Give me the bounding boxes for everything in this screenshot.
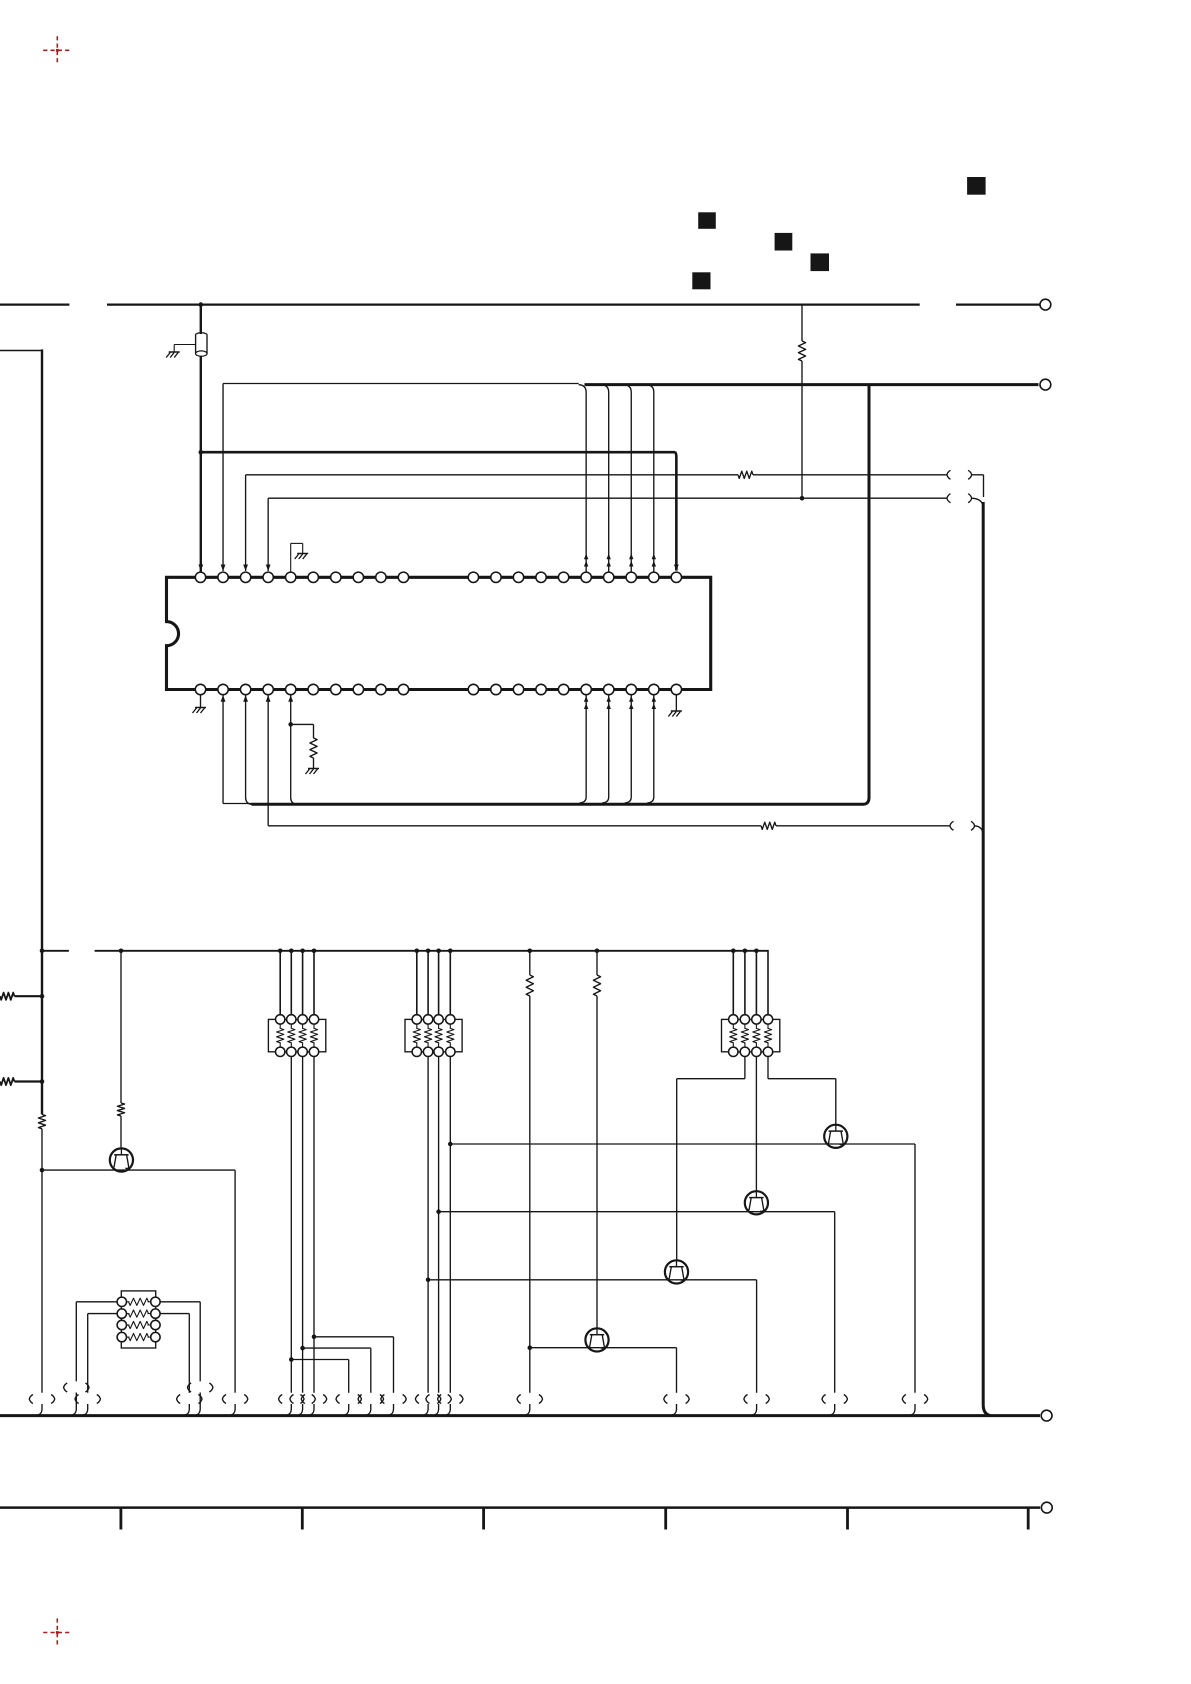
wire Q2 line stub into bottom rail [911, 1404, 915, 1415]
connector pin pair CN-n [177, 1395, 202, 1404]
connector pin pair CN-e (Q1 line) [222, 1395, 247, 1404]
wire RN4 row1 left stub [72, 1393, 76, 1415]
wire RN4 row2 right stub [185, 1404, 189, 1415]
wire bus drop to IC pin17-top [601, 385, 609, 572]
wire Q5 base feed upper [596, 951, 598, 975]
connector pin pair CN (x=438.6) [426, 1395, 451, 1404]
wire IC pin17-bottom vertical [602, 695, 609, 803]
wire RN2 pin4 feed [449, 951, 451, 1015]
resistor R1 (inline on left bus) [38, 1114, 45, 1128]
wire RN1 pin2 tap [291, 1360, 348, 1393]
arrow into IC pin 16 (bottom, double chevron) [584, 696, 588, 709]
junction node (RN1 pin4 / tap) [312, 1335, 317, 1340]
wire RN1 pin3 tap [303, 1348, 371, 1393]
resistor R9 (Q5 base) [593, 975, 600, 996]
arrow into IC pin 19 (bottom, double chevron) [652, 696, 656, 709]
ground (IC pin1-bottom) [193, 695, 207, 713]
wire RN2 pin1 feed [416, 951, 418, 1015]
wire Q1 emitter line [42, 1170, 235, 1393]
IC U1 bottom pin circles [195, 684, 681, 694]
arrow into IC pin 17 (bottom, double chevron) [607, 696, 611, 709]
resistor R7 (left edge lower) [0, 1078, 14, 1085]
arrow (pin18-top, double chevron) [629, 554, 633, 567]
wire IC pin3-top run (right part) [753, 474, 947, 476]
registration mark (bottom-left) [43, 1618, 71, 1646]
transistor Q1 [110, 1148, 133, 1171]
wire top supply rail segment B [107, 304, 920, 306]
bus lower data (thick, y=804.3) [252, 803, 865, 806]
arrow (pin16-top, double chevron) [584, 554, 588, 567]
wire R4 branch [291, 724, 314, 738]
wire RN2 pin2 feed [427, 951, 429, 1015]
wire RN1 pin1 feed [279, 951, 281, 1015]
wire Q1 line stub into bottom rail [231, 1404, 235, 1415]
wire stub into bottom rail (x=314.0) [310, 1404, 314, 1415]
arrow into IC pin 3 (bottom) [243, 695, 248, 702]
wire capacitor ground stub [174, 345, 195, 353]
resistor R4 (pin5 pulldown) [310, 738, 317, 758]
wire IC pin2-top vertical [222, 384, 224, 572]
black index square 5 [967, 177, 986, 195]
wire IC pin4-top run [268, 497, 946, 499]
wire Q2 emitter line [450, 1144, 915, 1393]
connector pin pair CN (x=348.7) [336, 1395, 361, 1404]
wire RN4 row1 right [160, 1302, 200, 1382]
IC U1 top pin circles (pins 1-20) [195, 572, 681, 582]
wire stub into bottom rail (x=302.6) [298, 1404, 302, 1415]
ground (IC pin5-top) [291, 543, 309, 572]
tick mark (x=120.9) [120, 1508, 123, 1530]
wire mid supply rail segment A [42, 950, 69, 952]
junction node (left bus / mid rail) [40, 949, 45, 954]
resistor R2 (inline, pin3 line) [738, 471, 753, 478]
wire left bus lower section [41, 1129, 43, 1393]
wire T1 base feed lower [120, 1116, 122, 1148]
arrow into IC pin 4 (top) [266, 565, 271, 572]
registration mark (top-left) [43, 36, 71, 64]
wire R6 to left bus (thick) [14, 995, 42, 997]
wire RN1 pin4 feed [313, 951, 315, 1015]
wire R7 to left bus (thick) [14, 1080, 42, 1082]
connector pin pair CN-m [188, 1383, 213, 1392]
connector pin pair CN-f (Q2 line) [902, 1395, 927, 1404]
resistor network RN1 [268, 1015, 325, 1057]
resistor network RN3 [722, 1015, 780, 1057]
tick mark (x=1028.2) [1027, 1508, 1030, 1530]
arrow (pin17-top, double chevron) [607, 554, 611, 567]
junction node (mid rail / RN3 pin2) [743, 949, 748, 954]
wire R4 to ground [313, 758, 315, 769]
transistor Q2 [824, 1125, 847, 1148]
connector pin pair CN-c (pin4 line) [947, 494, 972, 503]
wire pin3 line after connector [972, 475, 984, 497]
wire RN1 pin3 output [302, 1056, 304, 1392]
wire RN3 pin2 to Q4 base [677, 1056, 745, 1260]
arrow into IC pin 3 (top) [243, 565, 248, 572]
wire pin1 feed lower (thick) [200, 356, 202, 572]
junction node (RN2 pin3 / Q3 emitter line) [436, 1209, 441, 1214]
wire top supply rail segment C [956, 304, 1040, 306]
connector pin pair CN (x=450.3) [438, 1395, 463, 1404]
terminal TP4 (bottom scale line) [1041, 1502, 1052, 1513]
resistor network RN2 [405, 1015, 462, 1057]
wire bus drop to IC pin18-top [624, 385, 632, 572]
wire Q3 emitter line [439, 1212, 835, 1393]
wire RN4 row2 left [88, 1314, 117, 1393]
wire Q4 emitter line [428, 1280, 756, 1393]
wire RN3 pin2 feed [744, 951, 746, 1015]
ground (at capacitor C1) [166, 352, 180, 358]
wire RN4 row2 left stub [84, 1404, 88, 1415]
junction node (pin1 wire / top rail) [199, 302, 204, 307]
wire stub into bottom rail (x=393.5) [389, 1404, 393, 1415]
arrow (pin19-top, double chevron) [652, 554, 656, 567]
wire bus drop to IC pin19-top [646, 385, 654, 572]
resistor R10 [526, 975, 533, 996]
junction node (pin5-bottom / R4 branch) [288, 722, 293, 727]
wire pin4-bottom hook into right bus [975, 826, 984, 834]
junction node (mid rail / Q5 base feed) [595, 949, 600, 954]
black index square 4 [692, 272, 710, 289]
wire IC pin16-bottom vertical [580, 695, 587, 803]
wire left bus stub into bottom rail [38, 1404, 42, 1415]
connector pin pair CN-l [75, 1395, 100, 1404]
resistor R3 (from top rail) [798, 341, 805, 361]
wire Q3 line stub into bottom rail [831, 1404, 835, 1415]
connector pin pair CN (x=428.1) [415, 1395, 440, 1404]
junction node (x529 wire / Q5 emitter line) [528, 1345, 533, 1350]
bus data rail (thick, y=384.6) [585, 383, 1039, 386]
wire IC pin5-bottom vertical [291, 695, 297, 805]
bus horizontal (thick, y=452) [201, 451, 675, 454]
black index square 1 [698, 212, 716, 229]
wire stub into bottom rail (x=428.1) [424, 1404, 428, 1415]
wire RN2 pin4 output [449, 1056, 451, 1392]
junction node (mid rail / RN1 pin1) [278, 949, 283, 954]
wire Q4 line stub into bottom rail [752, 1404, 756, 1415]
wire mid supply rail segment B [95, 950, 769, 952]
capacitor C1 (cylinder bead) [196, 333, 207, 357]
wire Q5 line stub into bottom rail [672, 1404, 676, 1415]
wire RN3 pin3 to Q3 base [755, 1056, 757, 1191]
wire left vertical bus (thick) [41, 349, 43, 1114]
wire RN1 pin4 output [313, 1056, 315, 1392]
resistor R6 (left edge upper) [0, 993, 14, 1000]
junction node (mid rail / RN2 pin4) [448, 949, 453, 954]
wire R3 upper stub [801, 305, 803, 341]
wire IC pin3-top vertical [245, 475, 247, 571]
terminal TP1 (top right) [1040, 299, 1051, 310]
arrow into IC pin 4 (bottom) [266, 695, 271, 702]
wire IC pin2-bottom vertical [223, 695, 252, 804]
wire Q5 base feed lower [596, 996, 598, 1328]
wire IC pin4-bottom vertical [267, 695, 269, 826]
wire Q5 emitter line [530, 1348, 677, 1393]
tick mark (x=665.7) [664, 1508, 667, 1530]
wire top supply rail segment A [0, 304, 69, 306]
wire IC pin18-bottom vertical [625, 695, 632, 803]
connector pin pair CN-k [64, 1383, 89, 1392]
tick mark (x=847.5) [846, 1508, 849, 1530]
connector pin pair CN-h (Q4 line) [744, 1395, 769, 1404]
op-amp/driver IC U1 body [167, 577, 711, 689]
wire RN2 pin3 output [438, 1056, 440, 1392]
wire stub into bottom rail (x=370.8) [367, 1404, 371, 1415]
connector pin pair CN (x=291.3) [279, 1395, 304, 1404]
wire RN1 pin3 feed [302, 951, 304, 1015]
wire IC pin3-bottom vertical [246, 695, 252, 805]
junction node (mid rail / RN2 pin3) [436, 949, 441, 954]
junction node (mid rail / RN1 pin3) [300, 949, 305, 954]
bus riser (thick, x=869) [864, 385, 869, 805]
junction node (mid rail / RN3 pin3) [754, 949, 759, 954]
transistor Q4 [665, 1260, 688, 1283]
wire stub into bottom rail (x=348.7) [345, 1404, 349, 1415]
connector pin pair CN (x=314.0) [301, 1395, 326, 1404]
connector pin pair CN (x=370.8) [358, 1395, 383, 1404]
ground (below R4) [306, 769, 320, 775]
wire RN4 row1 right stub [196, 1393, 200, 1415]
black index square 2 [775, 233, 793, 251]
wire IC pin19-bottom vertical [647, 695, 654, 803]
junction node (mid rail / RN2 pin1) [415, 949, 420, 954]
wire IC pin3-top run (left part) [246, 474, 738, 476]
arrow into IC pin 5 (bottom) [288, 695, 293, 702]
junction node (T1 feed / mid rail) [119, 949, 124, 954]
connector pin pair CN (x=302.6) [290, 1395, 315, 1404]
terminal TP2 (right, data bus) [1040, 379, 1051, 390]
wire bus drop to IC pin16-top [579, 385, 587, 572]
arrow into IC pin 2 (top) [221, 565, 226, 572]
wire pin4 line hook into right bus [972, 498, 983, 506]
wire RN2 pin3 feed [438, 951, 440, 1015]
arrow into IC pin 1 (top) [198, 565, 203, 572]
arrow into IC pin 2 (bottom) [221, 695, 226, 702]
resistor R5 (inline, pin4-bottom line) [761, 822, 776, 829]
wire RN4 row2 right [160, 1314, 189, 1393]
junction node (mid rail / RN1 pin2) [289, 949, 294, 954]
wire R3 lower stub [801, 361, 803, 498]
wire RN3 pin4 to Q2 base [768, 1056, 836, 1124]
connector pin pair CN-g (Q3 line) [822, 1395, 847, 1404]
bus bottom rail (thick) [0, 1414, 1040, 1417]
wire IC pin4-top vertical [267, 498, 269, 571]
connector pin pair CN-a (left bus to bottom rail) [29, 1395, 54, 1404]
junction node (mid rail / RN2 pin2) [426, 949, 431, 954]
junction node (R7 / left bus) [40, 1079, 45, 1084]
wire right vertical bus (thick) [982, 502, 985, 1406]
transistor Q5 [585, 1328, 608, 1351]
connector pin pair CN-j (R10 wire) [517, 1395, 542, 1404]
wire R10 stub into bottom rail [526, 1404, 530, 1415]
junction node (left bus / Q1 emitter line) [40, 1168, 45, 1173]
wire IC pin4-bottom run (right) [776, 825, 950, 827]
wire IC pin2-top horizontal run [223, 383, 579, 385]
transistor Q3 [745, 1191, 768, 1214]
wire R10 upper stub [529, 951, 531, 975]
connector pin pair CN (x=393.5) [381, 1395, 406, 1404]
wire RN4 row1 left [76, 1302, 117, 1382]
ground (IC pin20-bottom) [668, 695, 682, 717]
junction node (mid rail / RN3 pin1) [731, 949, 736, 954]
wire IC pin4-bottom run (left) [268, 825, 761, 827]
wire stub into bottom rail (x=438.6) [434, 1404, 438, 1415]
wire RN3 pin4 feed (rail end) [767, 950, 769, 1015]
junction node (R3 / pin4 line) [800, 496, 805, 501]
wire RN3 pin3 feed [755, 951, 757, 1015]
wire pin1 feed upper (thick) [200, 305, 202, 334]
wire bottom scale line [0, 1506, 1040, 1509]
wire RN2 pin2 output [427, 1056, 429, 1392]
junction node (RN2 pin4 / Q2 emitter line) [448, 1142, 453, 1147]
junction node (pin1 wire / y452 bus) [199, 450, 204, 455]
wire T1 base feed upper [120, 951, 122, 1103]
wire RN3 pin1 feed [732, 951, 734, 1015]
junction node (mid rail / RN1 pin4) [312, 949, 317, 954]
wire R10 lower run [529, 996, 531, 1393]
tick mark (x=483.6) [482, 1508, 485, 1530]
wire stub into bottom rail (x=291.3) [287, 1404, 291, 1415]
junction node (RN1 pin3 / tap) [300, 1346, 305, 1351]
wire right bus merge into bottom rail [983, 1406, 990, 1416]
terminal TP3 (bottom rail) [1041, 1410, 1052, 1421]
arrow into IC pin 18 (bottom, double chevron) [629, 696, 633, 709]
tick mark (x=302.3) [301, 1508, 304, 1530]
black index square 3 [811, 253, 830, 271]
wire RN1 pin2 feed [290, 951, 292, 1015]
wire stub into bottom rail (x=450.3) [446, 1404, 450, 1415]
connector pin pair CN-b (pin3 line) [947, 470, 972, 479]
resistor network RN4 (horizontal) [117, 1291, 160, 1348]
connector pin pair CN-i (Q5 line) [664, 1395, 689, 1404]
junction node (R6 / left bus) [40, 994, 45, 999]
wire bus drop to IC pin20-top (thick) [675, 452, 676, 570]
junction node (RN1 pin2 / tap) [289, 1357, 294, 1362]
wire RN1 pin4 tap [314, 1337, 394, 1393]
wire RN1 pin2 output [290, 1056, 292, 1392]
resistor R8 (T1 base) [117, 1103, 124, 1116]
connector pin pair CN-d (pin4-bottom line) [950, 821, 975, 830]
arrow into IC pin 20 (top) [674, 565, 679, 572]
junction node (RN2 pin2 / Q4 emitter line) [426, 1278, 431, 1283]
wire left branch to vertical bus [0, 350, 42, 352]
junction node (mid rail / R10 wire) [528, 949, 533, 954]
